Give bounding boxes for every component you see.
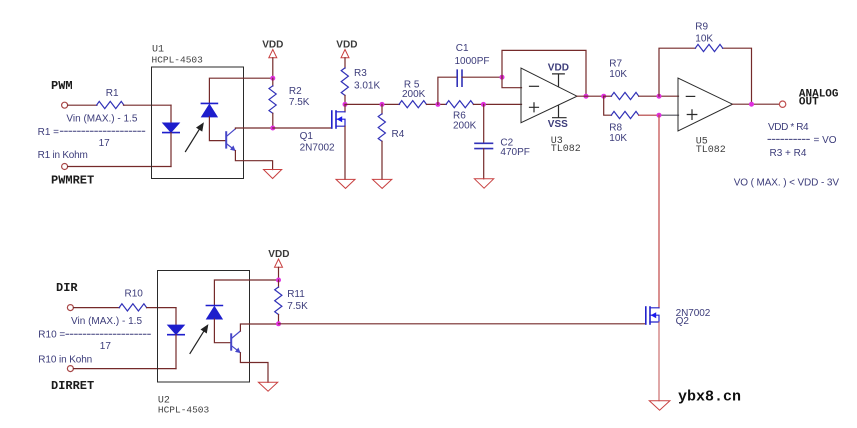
svg-text:10K: 10K bbox=[609, 133, 627, 144]
op-amp U3 TL082 bbox=[521, 68, 577, 123]
svg-text:VSS: VSS bbox=[548, 119, 568, 130]
svg-text:ybx8.cn: ybx8.cn bbox=[678, 389, 741, 406]
wire C2 top lead bbox=[483, 104, 485, 143]
label C2 value bbox=[500, 138, 529, 159]
wire split to R7 bbox=[604, 95, 612, 97]
wire U2 LED cathode to pin2 bbox=[175, 335, 177, 369]
svg-text:R10: R10 bbox=[125, 289, 144, 300]
svg-text:TL082: TL082 bbox=[551, 144, 581, 155]
node junction R8 right bbox=[657, 113, 662, 118]
label U5 TL082 bbox=[696, 145, 726, 156]
wire Q1 drain lead bbox=[344, 104, 346, 111]
svg-text:OUT: OUT bbox=[799, 96, 819, 108]
resistor R9 bbox=[695, 44, 723, 51]
ground U1 emitter bbox=[264, 170, 282, 179]
wire PWM terminal to R1 bbox=[68, 104, 97, 106]
diode U2 LED bbox=[168, 325, 184, 335]
svg-text:R10 in Kohn: R10 in Kohn bbox=[38, 354, 92, 365]
wire R7 to U3 inverting input bbox=[639, 95, 679, 97]
wire R10 to U2 pin1 bbox=[147, 307, 176, 309]
svg-text:TL082: TL082 bbox=[696, 145, 726, 156]
node junction C1 feedback bbox=[500, 75, 505, 80]
svg-text:7.5K: 7.5K bbox=[289, 97, 310, 108]
label DIRRET bbox=[51, 379, 94, 393]
label R11 value bbox=[287, 289, 308, 312]
wire U1 photodiode cathode to VDD net bbox=[209, 78, 272, 103]
resistor R6 bbox=[446, 101, 474, 108]
svg-text:17: 17 bbox=[99, 138, 111, 149]
svg-text:R10 =: R10 = bbox=[38, 330, 65, 341]
wire split down to R8 bbox=[604, 96, 612, 115]
node junction R4 top bbox=[380, 102, 385, 107]
svg-text:200K: 200K bbox=[453, 120, 477, 131]
power VDD symbol at R2 bbox=[262, 39, 283, 78]
wire U2 photodiode cathode to VDD net bbox=[214, 280, 278, 306]
transistor U1 output bbox=[226, 129, 235, 151]
svg-text:2N7002: 2N7002 bbox=[300, 142, 335, 153]
transistor Q1 2N7002 bbox=[332, 111, 345, 128]
label U3 TL082 bbox=[551, 144, 581, 155]
svg-text:R11: R11 bbox=[287, 289, 305, 300]
label PWMRET bbox=[51, 174, 94, 188]
wire drain node to U5 noninverting input bbox=[659, 114, 679, 116]
wire R6 to plus node bbox=[474, 103, 522, 105]
wire U3 feedback loop bbox=[502, 50, 586, 96]
opto U2 box bbox=[158, 271, 250, 383]
wire R8 to drain node bbox=[639, 114, 659, 116]
power U3 VSS pin bbox=[548, 106, 568, 130]
svg-text:Q1: Q1 bbox=[300, 131, 314, 142]
svg-text:R1: R1 bbox=[106, 88, 119, 99]
node junction VDD-R2-photodiode bbox=[270, 76, 275, 81]
wire R4 bottom to ground bbox=[381, 141, 383, 179]
svg-text:Vin (MAX.) - 1.5: Vin (MAX.) - 1.5 bbox=[71, 316, 142, 327]
wire U3 output to R7 R8 split bbox=[577, 95, 604, 97]
wire R11 node to Q2 gate bbox=[279, 323, 646, 325]
formula VO equation bbox=[768, 122, 837, 159]
label R6 value bbox=[453, 110, 477, 131]
svg-text:DIRRET: DIRRET bbox=[51, 379, 94, 393]
transistor U2 output bbox=[231, 331, 240, 353]
node PWM terminal bbox=[62, 102, 68, 108]
node junction R11 bottom bbox=[276, 321, 281, 326]
label Q2 value bbox=[676, 308, 711, 327]
wire U2 photodiode anode to base bbox=[214, 319, 230, 343]
diode U2 photodiode bbox=[206, 306, 222, 320]
wire U2 emitter to ground bbox=[240, 353, 268, 383]
node DIR terminal bbox=[67, 305, 73, 311]
label R1 value bbox=[106, 88, 119, 99]
label R10 bbox=[125, 289, 144, 300]
resistor R1 bbox=[97, 101, 125, 108]
wire R11 bottom lead bbox=[278, 315, 280, 324]
svg-text:HCPL-4503: HCPL-4503 bbox=[158, 404, 210, 415]
node junction Q1 drain bbox=[343, 102, 348, 107]
node junction U5 output R9 bbox=[749, 102, 754, 107]
label ANALOG OUT bbox=[799, 89, 839, 109]
wire R2 bottom lead bbox=[272, 113, 274, 128]
wire R8 node down to Q2 drain bbox=[658, 115, 660, 308]
wire U1 collector to R2 node bbox=[235, 127, 272, 130]
ground Q1 source bbox=[336, 179, 355, 188]
node junction R7 right bbox=[657, 94, 662, 99]
label Q1 value bbox=[300, 131, 335, 153]
label R7 value bbox=[609, 59, 627, 80]
svg-text:R1 =: R1 = bbox=[38, 127, 60, 138]
node junction R5-C1-R6 bbox=[435, 102, 440, 107]
resistor R10 bbox=[119, 304, 146, 311]
label U1 bbox=[152, 45, 164, 56]
formula VO max bbox=[734, 178, 840, 189]
arrow U1 optical coupling bbox=[186, 123, 204, 151]
resistor R4 bbox=[378, 114, 385, 142]
node junction U3 output bbox=[584, 94, 589, 99]
wire R3 bottom to drain node bbox=[344, 95, 346, 104]
resistor R8 bbox=[611, 111, 639, 118]
wire U2 collector to R11 node bbox=[240, 324, 278, 331]
svg-text:HCPL-4503: HCPL-4503 bbox=[152, 54, 204, 65]
ground U2 emitter bbox=[258, 382, 277, 391]
svg-text:PWMRET: PWMRET bbox=[51, 174, 94, 188]
node junction VDD-R11-photodiode bbox=[276, 278, 281, 283]
wire U1 emitter to ground bbox=[235, 151, 272, 170]
label R5 value bbox=[402, 79, 426, 100]
svg-text:200K: 200K bbox=[402, 89, 426, 100]
label R8 value bbox=[609, 122, 627, 144]
resistor R7 bbox=[611, 92, 639, 99]
label R3 value bbox=[354, 68, 380, 91]
wire DIR terminal to R10 bbox=[74, 307, 120, 309]
svg-text:10K: 10K bbox=[695, 33, 713, 44]
resistor R11 bbox=[275, 287, 282, 315]
svg-text:R9: R9 bbox=[695, 21, 708, 32]
svg-text:= VO: = VO bbox=[814, 135, 837, 146]
svg-text:R4: R4 bbox=[392, 129, 405, 140]
svg-text:R8: R8 bbox=[609, 122, 622, 133]
svg-text:Vin (MAX.) - 1.5: Vin (MAX.) - 1.5 bbox=[66, 113, 137, 124]
wire R11 top lead bbox=[278, 280, 280, 287]
label U5 bbox=[696, 136, 708, 147]
wire R2 node to Q1 gate bbox=[273, 127, 332, 129]
ground R4 bbox=[373, 179, 392, 188]
svg-text:7.5K: 7.5K bbox=[287, 301, 308, 312]
op-amp U5 TL082 bbox=[678, 78, 733, 131]
svg-text:VDD: VDD bbox=[548, 63, 569, 74]
ground Q2 bbox=[649, 401, 670, 410]
label U2 HCPL-4503 bbox=[158, 404, 210, 415]
diode U1 LED bbox=[163, 123, 179, 133]
ground C2 bbox=[474, 179, 493, 188]
svg-text:DIR: DIR bbox=[56, 281, 78, 295]
node PWMRET terminal bbox=[62, 164, 68, 170]
wire U1 photodiode anode to base bbox=[209, 117, 225, 141]
label R4 bbox=[392, 129, 405, 140]
svg-text:R2: R2 bbox=[289, 86, 302, 97]
resistor R5 bbox=[399, 101, 427, 108]
wire R4 top lead bbox=[381, 104, 383, 114]
svg-text:1000PF: 1000PF bbox=[455, 56, 490, 67]
resistor R2 bbox=[269, 86, 276, 114]
label U2 bbox=[158, 396, 170, 407]
wire U5 output bbox=[733, 103, 780, 105]
transistor Q2 2N7002 bbox=[646, 307, 659, 324]
wire drain node to R5 bbox=[345, 103, 400, 105]
label PWM bbox=[51, 79, 73, 93]
node junction R2-collector-gate bbox=[270, 126, 275, 131]
svg-text:VDD: VDD bbox=[268, 249, 289, 260]
wire PWMRET terminal to U1 pin2 bbox=[68, 166, 171, 168]
svg-text:PWM: PWM bbox=[51, 79, 73, 93]
svg-text:VDD: VDD bbox=[336, 40, 357, 51]
svg-text:C1: C1 bbox=[456, 43, 469, 54]
wire Q2 source to ground bbox=[658, 322, 660, 401]
svg-text:470PF: 470PF bbox=[500, 147, 529, 158]
wire R5 to C1 node bbox=[427, 103, 447, 105]
node DIRRET terminal bbox=[67, 366, 73, 372]
wire U1 LED anode bbox=[170, 105, 172, 123]
node junction R6-C2-noninv bbox=[481, 102, 486, 107]
power VDD symbol at R3 bbox=[336, 40, 357, 69]
wire Q1 source to ground bbox=[344, 126, 346, 179]
label ybx8.cn watermark bbox=[678, 389, 741, 406]
power U3 VDD pin bbox=[548, 63, 569, 87]
svg-text:R1 in Kohm: R1 in Kohm bbox=[38, 150, 88, 161]
wire C1 left branch bbox=[438, 77, 457, 104]
wire U2 LED anode bbox=[175, 308, 177, 326]
label U1 HCPL-4503 bbox=[152, 54, 204, 65]
svg-text:17: 17 bbox=[100, 341, 112, 352]
svg-text:VDD * R4: VDD * R4 bbox=[768, 122, 809, 133]
wire R9 feedback loop bbox=[659, 48, 752, 104]
wire C1 right to feedback node bbox=[462, 76, 502, 78]
formula R10 equation bbox=[38, 316, 152, 365]
node ANALOG OUT terminal bbox=[779, 101, 785, 107]
capacitor C1 bbox=[457, 70, 462, 86]
formula R1 equation bbox=[38, 113, 146, 161]
label C1 value bbox=[455, 43, 490, 67]
label R9 value bbox=[695, 21, 713, 44]
wire C2 bottom to ground bbox=[483, 149, 485, 179]
wire R2 top lead bbox=[272, 78, 274, 86]
svg-text:VO ( MAX. ) < VDD - 3V: VO ( MAX. ) < VDD - 3V bbox=[734, 178, 840, 189]
label U3 bbox=[551, 136, 563, 147]
wire DIRRET terminal to U2 pin2 bbox=[74, 368, 177, 370]
label DIR bbox=[56, 281, 78, 295]
node junction R7 R8 split bbox=[601, 94, 606, 99]
capacitor C2 bbox=[475, 143, 493, 148]
diode U1 photodiode bbox=[201, 103, 217, 117]
svg-text:R3 + R4: R3 + R4 bbox=[770, 148, 807, 159]
resistor R3 bbox=[341, 68, 348, 96]
svg-text:Q2: Q2 bbox=[676, 316, 690, 327]
wire C1 node to U3 inverting input bbox=[502, 77, 522, 88]
op-to U1 box bbox=[152, 67, 244, 179]
arrow U2 optical coupling bbox=[190, 325, 208, 353]
svg-text:10K: 10K bbox=[609, 69, 627, 80]
svg-text:R3: R3 bbox=[354, 68, 367, 79]
svg-text:3.01K: 3.01K bbox=[354, 81, 380, 92]
power VDD symbol at R11 bbox=[268, 249, 289, 280]
label R2 value bbox=[289, 86, 310, 108]
wire R1 to U1 pin1 bbox=[124, 104, 172, 106]
wire U1 LED cathode to pin2 bbox=[170, 133, 172, 167]
